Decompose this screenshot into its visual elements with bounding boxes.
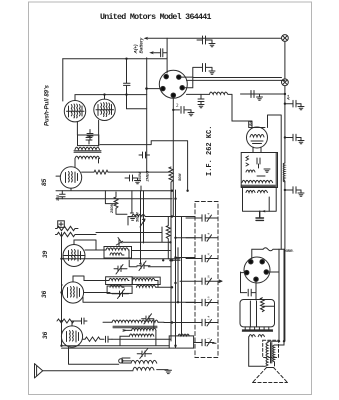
capacitor C-det — [256, 211, 264, 220]
inductor L-filter on right rail — [283, 163, 285, 182]
svg-text:Battery: Battery — [139, 37, 144, 53]
antenna trimmer — [137, 349, 151, 359]
label IF 262 KC — [206, 126, 214, 176]
fuse — [263, 248, 284, 251]
capacitor C-coil with ground — [198, 94, 204, 107]
tuning gang dashed box — [195, 202, 218, 358]
wire PP cathode drops — [77, 120, 98, 146]
resistor R-36b plate — [83, 336, 112, 342]
label 84 — [249, 120, 254, 126]
wire right pair verticals — [268, 249, 284, 341]
wire 85 region rails — [56, 188, 172, 199]
schematic strokes — [35, 35, 305, 383]
tube V2 push-pull 89 b — [94, 99, 115, 120]
svg-text:1.4: 1.4 — [207, 315, 211, 320]
capacitor C-top (grid stub) — [149, 38, 167, 57]
tiny cap value labels — [207, 213, 211, 340]
wire 36b region — [72, 321, 82, 326]
trimmer below — [112, 289, 129, 299]
tube V5 36 — [62, 282, 83, 303]
wire top-left loop rail — [63, 58, 167, 60]
wire 85 grid stub — [56, 175, 60, 177]
svg-text:A(+): A(+) — [133, 44, 138, 55]
wire socket bottom drop — [172, 97, 174, 216]
wire socket2 left — [241, 272, 245, 293]
wire top B+ rail — [148, 37, 282, 39]
wire PP plate rail — [75, 95, 147, 101]
wire long rail to cap5 — [83, 297, 195, 302]
label 36 a — [41, 290, 48, 298]
wire speaker feed — [267, 367, 274, 369]
wire socket right pin loop — [181, 77, 193, 88]
tiny label tone — [136, 212, 140, 222]
svg-text:36: 36 — [42, 331, 49, 339]
antenna symbol — [35, 364, 43, 378]
vibrator unit box — [240, 298, 275, 330]
svg-text:39: 39 — [42, 250, 49, 258]
label 350 ohm — [56, 195, 60, 201]
svg-text:I.F. 262 KC.: I.F. 262 KC. — [206, 126, 214, 176]
label 36 b — [42, 331, 49, 339]
speaker cone dashed — [253, 368, 288, 383]
oscillator padder box — [169, 334, 193, 348]
trimmer cap T-39 — [114, 265, 127, 275]
label A(+) Battery — [133, 37, 144, 54]
label vib — [284, 249, 294, 253]
tiny label 250M — [110, 203, 114, 214]
capacitor C-grid stub — [124, 59, 131, 95]
wire oscillator rails — [62, 330, 170, 348]
svg-text:2MEG: 2MEG — [146, 171, 150, 183]
svg-text:85: 85 — [41, 178, 48, 186]
ground antenna coil — [157, 370, 172, 374]
tube V6 36 — [61, 326, 82, 347]
label 85 — [41, 178, 48, 186]
wire socket top pin — [166, 58, 168, 73]
svg-text:.4: .4 — [207, 253, 211, 256]
output transformer T-out — [266, 343, 275, 365]
junction dots on bundle — [60, 58, 286, 347]
svg-text:2: 2 — [176, 104, 179, 109]
tiny label 2MEG upper — [146, 171, 150, 183]
svg-text:350: 350 — [56, 195, 60, 201]
svg-text:VIBR.: VIBR. — [284, 249, 294, 253]
capacitor C-pp — [87, 130, 93, 141]
wire socket left pin — [147, 88, 161, 90]
IF can 1 (box) — [241, 153, 277, 188]
trimmer caps T-36 — [137, 261, 150, 271]
svg-text:United Motors Model 364441: United Motors Model 364441 — [100, 12, 211, 22]
svg-text:36: 36 — [41, 290, 48, 298]
antenna coil L1 — [112, 339, 171, 370]
svg-text:.4: .4 — [207, 232, 211, 235]
wire second rail to lamp2 — [193, 77, 282, 79]
label A+ small — [286, 94, 291, 101]
wire avc rail — [62, 227, 163, 346]
svg-text:Push-Pull 89’s: Push-Pull 89’s — [45, 84, 51, 126]
tuning cap bank — [164, 215, 222, 346]
tiny label 250M upper — [138, 171, 142, 182]
oscillator trimmer — [142, 314, 154, 328]
wire transformer to 85 tube — [75, 58, 147, 172]
resistor R-vert2 — [166, 217, 170, 259]
wire IF can sides — [243, 153, 277, 212]
oscillator transformer top winding — [103, 320, 164, 328]
wire grid pair verticals — [140, 191, 144, 264]
svg-text:A+: A+ — [286, 94, 291, 101]
tube socket S2 (rectifier) — [244, 257, 270, 283]
arrow battery feed 1 — [144, 37, 149, 40]
capacitor C-2B — [139, 152, 150, 158]
svg-text:50M: 50M — [178, 173, 182, 181]
resistor R-avc pair — [56, 226, 97, 236]
coil former box T2 — [104, 247, 132, 259]
pilot lamp P2 — [282, 79, 289, 86]
electrolytic cap box — [58, 221, 65, 228]
capacitor C2 with ground — [173, 104, 194, 116]
wire left drop to PP tubes — [62, 59, 64, 101]
IF transformer T-IF1 windings — [241, 180, 275, 192]
label Push-Pull 89's — [45, 84, 51, 126]
interstage transformer T1 — [74, 135, 101, 159]
svg-text:16: 16 — [207, 275, 211, 279]
wire socket2 bottom — [255, 281, 257, 300]
capacitor C-bypass2 with ground — [203, 64, 216, 75]
wire socket2 top — [252, 249, 263, 258]
resistor R-bleed vertical on bundle — [169, 167, 173, 184]
capacitor C-vib — [241, 289, 257, 296]
capacitor C-tone with ground — [129, 191, 135, 221]
wire right inner vertical — [268, 115, 282, 249]
secondary windings — [249, 335, 264, 337]
wire 84 tube top tap — [249, 121, 265, 153]
capacitor C-g with ground — [125, 175, 141, 184]
label 39 — [42, 250, 49, 258]
coil former boxes T3 — [106, 277, 133, 285]
tube V1 push-pull 89 a — [64, 101, 85, 122]
tube V-84 (second detector) — [247, 127, 268, 148]
wire 39 stage links — [123, 233, 171, 251]
wire rails to tuning caps — [172, 217, 195, 258]
wire antenna lead — [43, 370, 133, 372]
wire transformer connections — [263, 341, 284, 366]
oscillator coil L2 — [123, 328, 156, 336]
wire rail 39 — [62, 240, 181, 259]
pilot lamp P1 — [282, 35, 289, 42]
tube V4 39 — [63, 245, 85, 267]
wire vibrator to speaker — [249, 337, 263, 367]
inductor L-ant coil with arrow — [128, 214, 148, 227]
resistor divider vertical — [114, 192, 127, 214]
wire rail mid — [129, 260, 180, 267]
wire center vertical bundle — [171, 184, 182, 348]
core bar — [242, 330, 272, 331]
arrow on B rail — [262, 210, 266, 213]
wire can drop — [268, 197, 270, 211]
wire socket to lamp rail — [187, 79, 285, 81]
svg-text:16: 16 — [207, 296, 211, 300]
svg-text:.1: .1 — [207, 337, 211, 340]
resistor R-36 — [57, 318, 87, 324]
wire to bypass caps — [193, 40, 203, 77]
wire coil to IF tube — [232, 94, 252, 127]
wire loop below rail — [127, 95, 147, 109]
svg-text:250M: 250M — [138, 171, 142, 182]
wire speaker return — [69, 347, 119, 364]
wire right vertical rail — [284, 41, 286, 341]
inductor L-osc (horizontal coil) — [187, 92, 233, 94]
wire drop from rail — [105, 186, 141, 204]
dashed box around transformer — [263, 340, 279, 357]
IF transformer T2 primary — [85, 238, 129, 256]
IF transformer T3 — [84, 278, 158, 287]
wire right column caps — [241, 91, 305, 197]
tube V3 85 — [60, 167, 81, 188]
capacitor C-85k — [60, 191, 66, 199]
svg-text:84: 84 — [249, 120, 254, 126]
wire to tuning cap 1 — [128, 217, 195, 226]
wire interstage feed — [100, 141, 188, 191]
svg-text:250M: 250M — [110, 203, 114, 214]
wire osc box to caps — [122, 343, 199, 364]
tube socket S1 (oscillator-converter) — [159, 70, 187, 98]
resistor R-85 plate — [82, 170, 170, 174]
wire rails 36 — [62, 276, 173, 293]
svg-text:.4: .4 — [207, 213, 211, 216]
capacitor C-bypass1 with ground — [203, 36, 216, 47]
